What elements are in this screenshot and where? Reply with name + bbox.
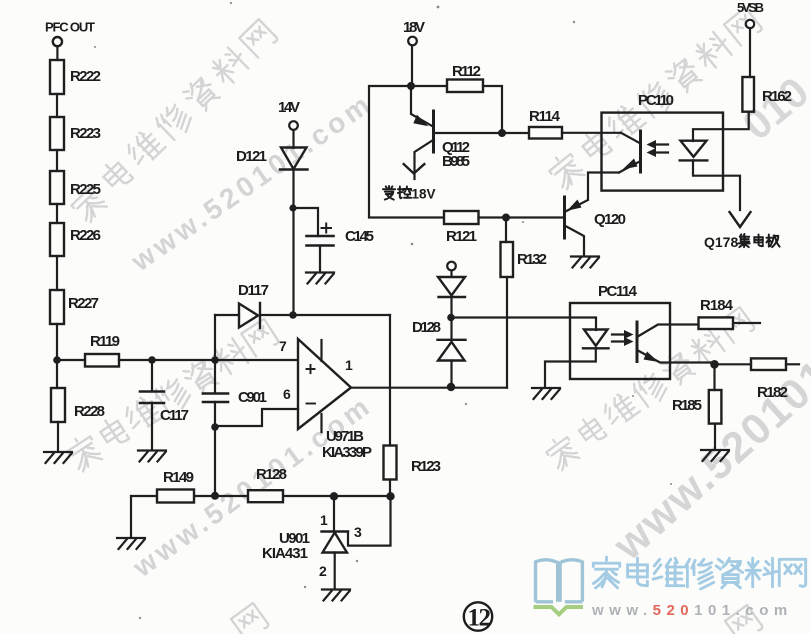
resistor R121 [444, 211, 479, 224]
transistor Q112 emitter [411, 86, 433, 127]
transistor Q120 base bar [563, 197, 566, 238]
wire [450, 318, 452, 341]
arrow 受控18V [404, 164, 425, 173]
svg-text:R227: R227 [68, 295, 99, 312]
PC114 phototransistor emitter [637, 350, 714, 363]
wire PC114 LED cathode to ground [545, 348, 596, 386]
node D128 bottom on output line [447, 383, 455, 391]
node 14V rail joins D117 line [289, 311, 297, 319]
wire R112 right down [483, 86, 502, 133]
ground bottom-left [117, 538, 145, 549]
resistor R123 [384, 446, 397, 480]
svg-text:14V: 14V [278, 99, 300, 116]
wire D117 cathode [260, 314, 390, 316]
svg-text:R228: R228 [74, 403, 105, 420]
node feedback column bottom [211, 492, 219, 500]
node D128 mid [447, 314, 455, 322]
svg-text:U971B: U971B [326, 428, 364, 445]
svg-text:R222: R222 [70, 68, 101, 85]
svg-text:R119: R119 [90, 333, 120, 350]
ground under Q120 [571, 257, 599, 268]
svg-text:R185: R185 [672, 397, 702, 414]
ground PC114 [532, 388, 560, 399]
PC110 LED [680, 141, 708, 161]
node pin6 tap [211, 423, 219, 431]
svg-text:010: 010 [734, 68, 811, 149]
svg-text:R112: R112 [452, 63, 481, 80]
ground under C117 [138, 451, 166, 462]
wire bottom-left drop [130, 496, 132, 536]
wire R132 top [505, 218, 507, 243]
node C117 tap [148, 356, 156, 364]
resistor R185 [709, 390, 722, 424]
svg-text:KIA431: KIA431 [262, 545, 308, 562]
resistor R119 [85, 354, 119, 367]
svg-text:R182: R182 [757, 384, 788, 401]
ground under C145 [306, 273, 334, 284]
svg-text:C117: C117 [160, 407, 189, 424]
svg-text:Q178: Q178 [704, 234, 738, 250]
svg-text:KIA339P: KIA339P [322, 444, 372, 461]
ground under R228 [44, 452, 72, 463]
capacitor C901 [203, 394, 228, 403]
wire to R182 [715, 363, 752, 365]
wire 5VSB down [749, 28, 751, 77]
resistor R182 [751, 358, 786, 370]
diode D117 [239, 303, 260, 328]
node R182/R185 [710, 360, 719, 369]
PC114 phototransistor collector [637, 325, 698, 338]
wire R119 to opamp [119, 359, 298, 361]
wire R123 bottom [389, 480, 391, 497]
wire R184 right [733, 322, 760, 324]
wire op-amp output [351, 387, 507, 389]
resistor R222 [50, 60, 64, 94]
wire loop left of Q112 [369, 86, 444, 218]
svg-text:R162: R162 [762, 88, 792, 105]
wire [56, 204, 58, 223]
svg-text:R225: R225 [70, 181, 101, 198]
svg-text:R226: R226 [70, 227, 101, 244]
svg-text:B985: B985 [442, 153, 470, 170]
node R123 bottom [386, 492, 394, 500]
op-amp ground stub pin [320, 414, 322, 432]
resistor R128 [248, 490, 283, 502]
wire U901 cathode [333, 497, 335, 532]
logo book icon [536, 560, 583, 602]
terminal 5VSB [746, 20, 754, 28]
op-amp power stub pin [320, 340, 322, 361]
wire R132 bottom column [506, 277, 508, 388]
node C145 tap [289, 204, 296, 211]
transistor Q120 collector [566, 226, 585, 255]
wire [56, 256, 58, 290]
wire [56, 94, 58, 117]
feedback right column [389, 315, 391, 446]
wire R185 bottom [714, 424, 716, 448]
wire R119 left [61, 359, 85, 361]
svg-text:3: 3 [354, 524, 362, 540]
wire feedback column [214, 315, 216, 496]
svg-text:6: 6 [283, 386, 291, 402]
wire C145 branch [293, 208, 318, 236]
resistor R223 [50, 117, 64, 150]
svg-text:PFC OUT: PFC OUT [45, 20, 95, 35]
svg-text:PC114: PC114 [598, 283, 638, 300]
node 18V [407, 82, 415, 90]
svg-text:R128: R128 [256, 466, 287, 483]
svg-text:D121: D121 [236, 148, 267, 165]
svg-text:R149: R149 [163, 469, 194, 486]
wire pin6 input [215, 409, 298, 426]
svg-text:R114: R114 [529, 108, 561, 125]
PC110 light arrows [651, 145, 668, 153]
label 受控18V [383, 186, 411, 200]
svg-text:R132: R132 [517, 251, 547, 268]
logo text 家电维修资料网 [593, 557, 805, 589]
transistor Q112 collector [415, 140, 434, 180]
node at R227/R119 [53, 356, 61, 364]
wire LED cathode out [693, 160, 740, 210]
svg-text:R184: R184 [700, 297, 734, 314]
svg-text:www.520101.com: www.520101.com [591, 602, 793, 619]
wire Q112 base [434, 132, 502, 134]
bottom rail wire [131, 495, 391, 497]
PC114 light arrows [612, 335, 629, 342]
wire [56, 46, 58, 60]
svg-text:R121: R121 [446, 228, 477, 245]
node U901 tap [330, 492, 338, 500]
svg-text:2: 2 [319, 563, 327, 579]
svg-text:www.520101.com: www.520101.com [125, 87, 379, 278]
svg-text:5VSB: 5VSB [737, 0, 764, 15]
transistor Q120 emitter diag [566, 173, 620, 212]
resistor R184 [699, 317, 734, 329]
wire R112 left [411, 85, 447, 87]
wire [319, 246, 321, 272]
terminal 18V [408, 37, 417, 46]
PC114 emitter arrowhead [644, 352, 659, 363]
PC110 emitter arrowhead [623, 159, 638, 170]
PC114 LED input [595, 318, 597, 330]
plus mark C145 [322, 224, 332, 233]
svg-text:D128: D128 [412, 319, 441, 336]
svg-text:C901: C901 [238, 389, 267, 406]
transistor Q112 base bar [432, 111, 435, 152]
wire [450, 361, 452, 384]
svg-text:12: 12 [468, 605, 491, 632]
wire R121 right [479, 216, 565, 218]
resistor R227 [50, 290, 64, 324]
PC110 phototransistor collector [621, 133, 641, 144]
svg-text:PC110: PC110 [638, 92, 674, 109]
wire 18V down [411, 46, 413, 87]
PC114 LED [583, 330, 609, 349]
resistor R162 [742, 77, 754, 112]
PC114 phototransistor base bar [636, 322, 639, 362]
node Q112 base [498, 129, 506, 137]
wire [450, 271, 452, 278]
svg-text:18V: 18V [403, 19, 425, 36]
op-amp plus [307, 365, 315, 373]
resistor R132 [501, 242, 514, 277]
PC110 phototransistor emitter [619, 161, 641, 173]
terminal D128 top [447, 262, 456, 271]
diode D128 lower [438, 340, 466, 361]
wire [151, 403, 153, 449]
diode D128 upper [438, 277, 465, 297]
terminal PFC OUT [53, 37, 62, 46]
logo book underline [534, 607, 584, 614]
optocoupler PC114 box [570, 303, 670, 379]
wire U901 pin3 loop [348, 497, 391, 546]
wire R185 top [713, 364, 715, 390]
resistor R114 [529, 127, 562, 139]
node R121/R132 [502, 214, 510, 222]
wire [292, 170, 294, 316]
op-amp minus [307, 403, 316, 405]
node feedback column top [211, 356, 219, 364]
svg-text:7: 7 [279, 338, 287, 354]
wire [151, 360, 153, 391]
Q120 emitter arrowhead [567, 200, 582, 211]
Q112 emitter arrowhead [413, 115, 428, 126]
shunt regulator U901 KIA431 [322, 532, 349, 553]
resistor R149 [157, 490, 194, 503]
svg-text:1: 1 [320, 512, 328, 528]
diode D121 [280, 148, 308, 170]
wire [57, 422, 59, 450]
wire R114 line [502, 132, 529, 134]
wire R162 to LED [693, 112, 749, 141]
ground under R185 [701, 450, 729, 461]
svg-text:1: 1 [345, 357, 353, 373]
wire D117 anode [215, 314, 239, 316]
svg-text:18V: 18V [412, 187, 436, 202]
arrow Q178 collector [730, 212, 751, 227]
wire R114 to PC110 [562, 132, 621, 134]
wire U901 anode [334, 553, 336, 589]
wire R182 right [786, 363, 799, 365]
svg-text:R123: R123 [411, 458, 441, 475]
resistor R112 [447, 80, 483, 93]
wire [56, 150, 58, 171]
wire D128 mid to PC114 [451, 316, 596, 318]
resistor R226 [50, 223, 64, 256]
page number 12 circled [464, 602, 492, 630]
ground under U901 [322, 590, 350, 601]
terminal 14V [289, 121, 298, 130]
svg-text:C145: C145 [345, 228, 374, 245]
svg-text:Q120: Q120 [594, 211, 626, 228]
capacitor C117 [140, 392, 164, 404]
svg-text:D117: D117 [238, 282, 269, 299]
wire [450, 297, 452, 314]
op-amp U971B triangle [298, 339, 351, 429]
PC110 phototransistor base bar [639, 131, 642, 172]
wire [56, 324, 58, 388]
wire [292, 130, 294, 148]
svg-text:R223: R223 [70, 125, 101, 142]
resistor R225 [50, 171, 64, 204]
resistor R228 [51, 388, 65, 422]
optocoupler PC110 box [602, 113, 724, 191]
capacitor C145 [307, 236, 334, 246]
